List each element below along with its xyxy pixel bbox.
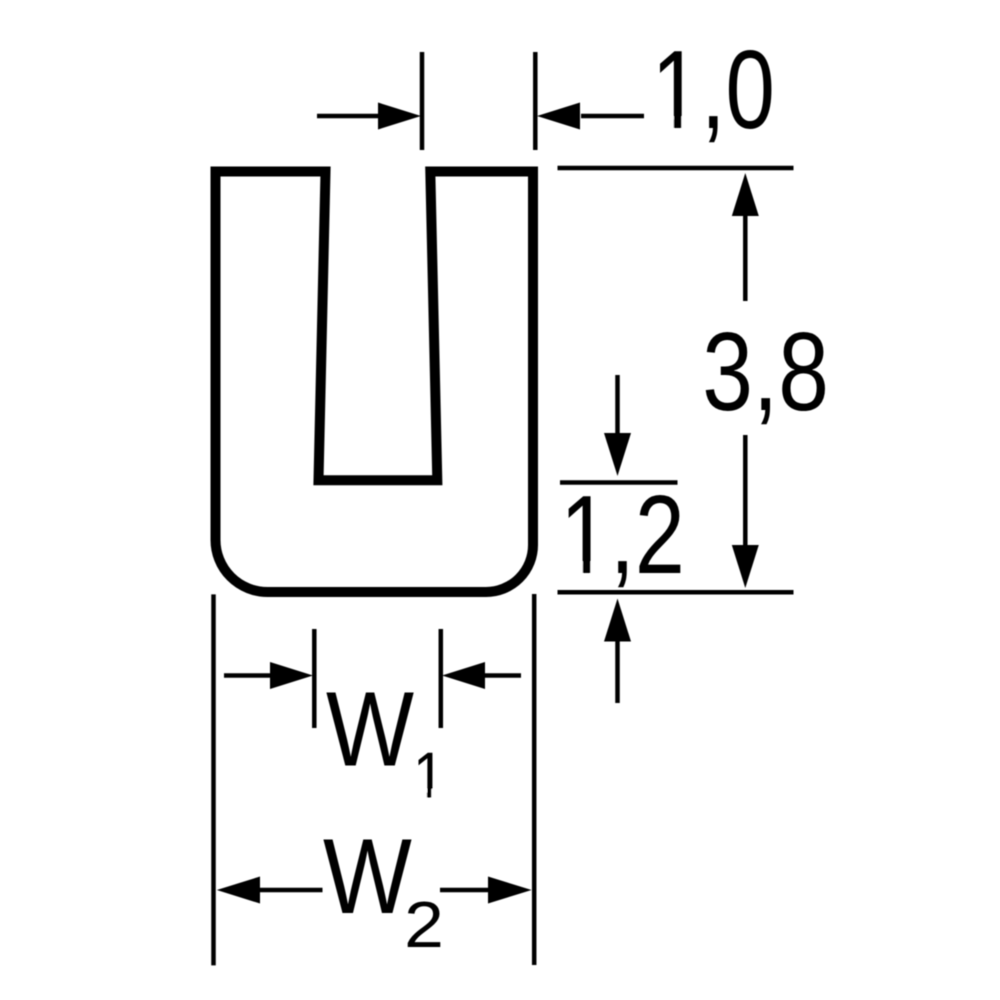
arrowhead 1,0 pointing right bbox=[378, 103, 421, 130]
dim 1,0 left arrow line bbox=[317, 114, 382, 119]
dim 1,2 lower arrow line bbox=[615, 640, 620, 703]
dim 1,2 upper arrow line bbox=[615, 375, 620, 435]
dim 1,0 right arrow line bbox=[581, 114, 644, 119]
arrowhead W1 pointing left bbox=[442, 662, 485, 689]
extension line W1 right bbox=[439, 629, 444, 728]
U profile outline bbox=[216, 172, 534, 593]
arrowhead 1,2 pointing down bbox=[604, 433, 631, 476]
extension line top (3,8) bbox=[558, 166, 794, 171]
arrowhead W2 pointing right bbox=[488, 877, 532, 904]
extension line bottom (3,8 / 1,2 / W2) bbox=[558, 590, 794, 595]
arrowhead W1 pointing right bbox=[270, 662, 313, 689]
svg-text:3,8: 3,8 bbox=[702, 309, 829, 434]
dim W1 right arrow line bbox=[482, 673, 521, 678]
svg-text:1,0: 1,0 bbox=[652, 29, 775, 153]
extension line W2 left bbox=[211, 594, 216, 965]
arrowhead 1,0 pointing left bbox=[537, 103, 580, 130]
dim 3,8 upper line bbox=[743, 214, 748, 301]
svg-text:W: W bbox=[323, 817, 412, 936]
arrowhead 3,8 pointing up bbox=[732, 173, 759, 216]
extension line W1 left bbox=[312, 629, 317, 728]
svg-text:1,2: 1,2 bbox=[560, 474, 685, 597]
dim 3,8 lower line bbox=[743, 435, 748, 547]
svg-text:2: 2 bbox=[404, 889, 444, 961]
extension line outer-right wall top bbox=[533, 52, 538, 150]
dim W1 left arrow line bbox=[224, 673, 274, 678]
extension line slot bottom (1,2) bbox=[560, 480, 678, 485]
svg-text:1: 1 bbox=[413, 739, 445, 811]
arrowhead 3,8 pointing down bbox=[732, 545, 759, 588]
dim W2 right line bbox=[440, 888, 490, 893]
dim W2 left line bbox=[258, 888, 323, 893]
extension line W2 right bbox=[532, 594, 537, 965]
white masks to remove Liberation "1" foot serifs (Arial-style target) bbox=[655, 117, 674, 131]
arrowhead 1,2 pointing up bbox=[604, 599, 631, 642]
arrowhead W2 pointing left bbox=[217, 877, 260, 904]
extension line inner-right wall top bbox=[420, 52, 425, 150]
svg-text:W: W bbox=[326, 671, 414, 789]
